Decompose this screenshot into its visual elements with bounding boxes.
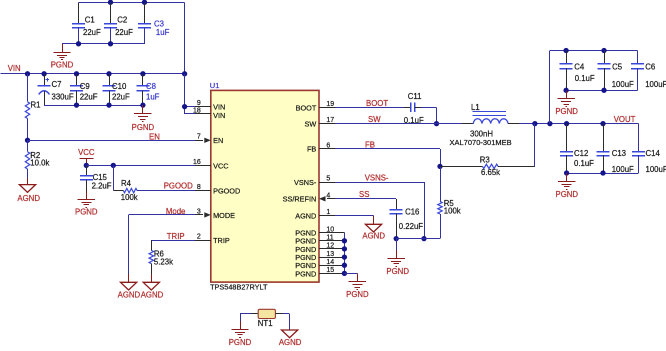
U1 pin 6 FB [307, 142, 335, 153]
svg-text:TRIP: TRIP [213, 236, 230, 245]
wire VSNS- net [335, 182, 425, 238]
net label SW [368, 115, 381, 124]
svg-text:VIN: VIN [213, 111, 225, 120]
wire top bank bottom rail [566, 90, 638, 92]
node top bank bottom junction at C4 [563, 88, 568, 93]
svg-text:C4: C4 [574, 62, 585, 71]
ground PGND under C15 [75, 191, 98, 217]
svg-text:VSNS-: VSNS- [294, 178, 317, 187]
node VOUT junction at R3 drop [532, 121, 537, 126]
svg-text:100uF: 100uF [612, 80, 634, 89]
wire C16/VSNS-/R5 bottom [396, 238, 440, 240]
resistor R2 [25, 140, 49, 184]
svg-text:1uF: 1uF [146, 93, 160, 102]
svg-text:100uF: 100uF [646, 165, 666, 174]
svg-text:22uF: 22uF [115, 28, 133, 37]
svg-text:C16: C16 [405, 207, 419, 216]
U1 pin 15 PGND [295, 267, 344, 278]
svg-text:Mode: Mode [166, 207, 186, 216]
svg-text:VIN: VIN [8, 64, 21, 73]
svg-text:VCC: VCC [78, 148, 95, 157]
node SW junction at C11 [434, 121, 439, 126]
svg-text:2: 2 [197, 234, 201, 241]
svg-text:14: 14 [326, 259, 334, 266]
wire C7-C8 bottom rail [44, 105, 143, 107]
U1 pin 12 PGND [295, 243, 344, 254]
U1 pin 7 EN [195, 134, 223, 146]
wire SW net [335, 123, 473, 125]
svg-text:22uF: 22uF [112, 92, 130, 101]
node VCC junction at R4 branch [111, 163, 116, 168]
node PGND bus junction pin 13 [342, 254, 347, 259]
svg-text:15: 15 [326, 267, 334, 274]
capacitor C1 [72, 2, 101, 44]
svg-text:SW: SW [305, 120, 317, 129]
wire EN net [28, 140, 195, 142]
node bottom rail junction at C9 [74, 102, 79, 107]
net label BOOT [366, 99, 388, 108]
svg-text:22uF: 22uF [80, 92, 98, 101]
svg-text:0.22uF: 0.22uF [399, 222, 424, 231]
net label VSNS- [365, 173, 389, 182]
capacitor C16 [390, 199, 424, 239]
svg-text:C11: C11 [408, 92, 422, 101]
net label PGOOD [164, 182, 193, 191]
node PGND bus junction pin 11 [342, 238, 347, 243]
svg-text:100uF: 100uF [612, 165, 634, 174]
svg-text:C9: C9 [80, 82, 90, 91]
svg-text:10: 10 [326, 226, 334, 233]
capacitor C13 [597, 124, 635, 174]
svg-text:EN: EN [213, 136, 223, 145]
ground AGND under R2 [17, 178, 40, 203]
net label Mode [166, 207, 186, 216]
wire VIN rail [1, 73, 185, 75]
svg-text:5.23k: 5.23k [154, 258, 173, 267]
capacitor C8 [136, 74, 159, 105]
svg-text:330uF: 330uF [52, 92, 74, 101]
svg-text:MODE: MODE [213, 211, 235, 220]
node top rail junction at C2 [108, 0, 113, 5]
node junction at U1 pin 9 [182, 104, 187, 109]
svg-text:13: 13 [326, 251, 334, 258]
svg-text:PGND: PGND [346, 290, 369, 299]
U1 pin 5 VSNS- [294, 176, 335, 187]
svg-text:PGOOD: PGOOD [164, 182, 193, 191]
node bottom rail junction at C1 [76, 41, 81, 46]
capacitor C4 [560, 51, 595, 91]
node VOUT junction at C13 [600, 121, 605, 126]
node VIN junction at C8 [140, 71, 145, 76]
svg-text:XAL7070-301MEB: XAL7070-301MEB [450, 138, 512, 147]
svg-text:17: 17 [326, 117, 334, 124]
svg-text:SW: SW [368, 115, 381, 124]
U1 pin 4 SS/REFIN [283, 192, 335, 203]
svg-text:6.65k: 6.65k [481, 168, 500, 177]
ground AGND at NT1 [279, 330, 302, 347]
net tie NT1 [258, 309, 276, 328]
ground PGND at U1 power pad [346, 273, 369, 299]
U1 pin 19 BOOT [296, 101, 335, 112]
wire NT1 right [275, 314, 289, 331]
svg-text:100k: 100k [121, 193, 138, 202]
resistor R6 [149, 240, 173, 274]
U1 pin 8 PGOOD [195, 184, 240, 196]
capacitor C12 [560, 124, 594, 173]
ground AGND at R6 [141, 274, 164, 299]
svg-text:C13: C13 [612, 149, 626, 158]
svg-text:19: 19 [326, 101, 334, 108]
wire PGND pin bus [344, 233, 346, 274]
svg-text:R1: R1 [31, 101, 41, 110]
node VIN junction at C10 [106, 71, 111, 76]
ground PGND under C8 [132, 102, 155, 132]
net label EN [149, 133, 160, 142]
ground PGND at top bank [555, 90, 578, 116]
svg-text:EN: EN [149, 133, 160, 142]
svg-text:AGND: AGND [362, 231, 385, 240]
svg-text:NT1: NT1 [258, 319, 273, 328]
U1 pin 14 PGND [295, 259, 344, 270]
U1 reference designator [210, 81, 220, 90]
ground PGND under C1-C3 bank [51, 44, 74, 70]
svg-text:PGND: PGND [75, 208, 98, 217]
capacitor C9 [70, 74, 98, 105]
node top rail junction at C3 [142, 0, 147, 5]
node C16 bottom junction [394, 236, 399, 241]
wire L1 to VOUT [508, 123, 638, 125]
svg-text:AGND: AGND [118, 290, 141, 299]
svg-text:C1: C1 [85, 16, 95, 25]
node EN junction at R1/R2 [25, 138, 30, 143]
svg-text:C2: C2 [117, 16, 127, 25]
svg-text:PGND: PGND [556, 190, 579, 199]
resistor R5 [438, 199, 461, 238]
wire R4 branch vertical [113, 165, 115, 190]
capacitor C11 [404, 92, 424, 125]
svg-text:C7: C7 [52, 80, 62, 89]
node VIN junction at VIN-pin rail [182, 71, 187, 76]
inductor L1 [450, 103, 512, 147]
U1 pin 10 PGND [295, 226, 344, 237]
net label SS [359, 190, 369, 199]
wire VIN rail to U1 VIN pins [185, 74, 195, 114]
svg-text:3: 3 [197, 208, 201, 215]
wire top rail C1-C3 to VIN-pin rail [79, 2, 185, 74]
node VIN junction at C9 [74, 71, 79, 76]
svg-text:TRIP: TRIP [167, 232, 185, 241]
node VIN junction at R1 [25, 71, 30, 76]
svg-text:11: 11 [326, 235, 333, 242]
svg-text:TPS548B27RYLT: TPS548B27RYLT [210, 283, 268, 292]
node VIN junction at C7 [41, 71, 46, 76]
ground AGND at U1 pin 1 [362, 216, 385, 241]
svg-text:C5: C5 [612, 62, 623, 71]
svg-text:5: 5 [326, 176, 330, 183]
power symbol VCC [78, 148, 95, 165]
node VOUT junction at top bank [547, 121, 552, 126]
capacitor C5 [598, 51, 635, 91]
ground PGND at bottom bank [556, 173, 579, 199]
capacitor C7 (polarized) [38, 74, 74, 105]
U1 part number label [210, 283, 268, 292]
wire TRIP net [151, 240, 195, 242]
svg-text:1: 1 [326, 209, 330, 216]
node PGND bus junction pin 15 [342, 271, 347, 276]
svg-text:PGND: PGND [555, 107, 578, 116]
resistor R3 [440, 124, 535, 177]
svg-text:0.1uF: 0.1uF [574, 159, 594, 168]
svg-text:PGND: PGND [386, 267, 409, 276]
wire FB net [335, 149, 441, 167]
svg-text:0.1uF: 0.1uF [575, 74, 595, 83]
node VOUT junction at C12 [564, 121, 569, 126]
svg-text:BOOT: BOOT [296, 103, 317, 112]
ground PGND under C16 [386, 239, 409, 276]
wire top bank rail [550, 51, 638, 124]
wire AGND pin net [335, 215, 374, 217]
svg-text:100k: 100k [444, 207, 461, 216]
svg-text:AGND: AGND [295, 211, 316, 220]
wire NT1 left [240, 314, 258, 322]
node VSNS- junction [421, 236, 426, 241]
U1 pin 11 PGND [295, 235, 344, 246]
svg-text:C8: C8 [146, 82, 156, 91]
resistor R4 [113, 179, 138, 202]
node bottom bank junction at C12 [564, 170, 569, 175]
svg-text:R3: R3 [480, 156, 490, 165]
capacitor C15 [80, 165, 112, 191]
ground AGND at MODE [118, 274, 141, 299]
svg-text:10.0k: 10.0k [30, 159, 49, 168]
U1 pin 13 PGND [295, 251, 344, 262]
U1 pin 16 VCC [193, 159, 229, 171]
svg-text:PGND: PGND [51, 61, 74, 70]
U1 pin 9 VIN [195, 100, 225, 112]
svg-text:1uF: 1uF [156, 28, 170, 37]
svg-text:VCC: VCC [213, 161, 228, 170]
svg-text:6: 6 [326, 142, 330, 149]
svg-text:FB: FB [307, 145, 316, 154]
wire FB vertical to R5 [440, 166, 442, 201]
capacitor C3 [138, 2, 170, 44]
U1 pin 1 AGND [295, 209, 335, 220]
capacitor C10 [103, 74, 131, 105]
svg-text:C12: C12 [574, 149, 588, 158]
net label FB [365, 140, 375, 149]
svg-text:L1: L1 [471, 103, 480, 112]
svg-text:U1: U1 [210, 81, 220, 90]
capacitor C14 [632, 124, 666, 174]
svg-text:PGND: PGND [132, 123, 155, 132]
capacitor C2 [104, 2, 133, 44]
node top rail junction at C5 [601, 48, 606, 53]
svg-text:C6: C6 [645, 62, 655, 71]
svg-text:7: 7 [197, 134, 201, 141]
svg-text:PGND: PGND [229, 338, 252, 346]
svg-text:C14: C14 [646, 149, 661, 158]
wire MODE net [129, 215, 195, 275]
node top bank bottom junction at C5 [601, 88, 606, 93]
svg-text:100uF: 100uF [645, 80, 666, 89]
wire PGND bus to ground [344, 273, 357, 275]
svg-text:AGND: AGND [17, 194, 40, 203]
node top rail junction at C4 [563, 48, 568, 53]
wire SS net [335, 198, 396, 200]
svg-text:AGND: AGND [279, 338, 302, 346]
svg-text:4: 4 [326, 192, 330, 199]
net label VOUT [614, 115, 636, 124]
wire PGOOD net [137, 190, 195, 192]
node bottom bank junction at C13 [600, 170, 605, 175]
net label TRIP [167, 232, 185, 241]
svg-text:C10: C10 [112, 82, 127, 91]
svg-text:8: 8 [197, 184, 201, 191]
node PGND bus junction pin 12 [342, 246, 347, 251]
node VCC junction at C15 [84, 163, 89, 168]
svg-text:PGND: PGND [295, 269, 316, 278]
svg-text:VOUT: VOUT [614, 115, 636, 124]
svg-text:22uF: 22uF [83, 28, 101, 37]
svg-text:BOOT: BOOT [366, 99, 388, 108]
U1 pin 18 VIN [193, 107, 225, 120]
svg-text:18: 18 [193, 107, 201, 114]
node PGND bus junction pin 14 [342, 263, 347, 268]
wire VCC net [86, 165, 195, 167]
svg-text:AGND: AGND [141, 290, 164, 299]
svg-text:16: 16 [193, 159, 201, 166]
svg-text:2.2uF: 2.2uF [92, 182, 112, 191]
U1 pin 2 TRIP [195, 234, 230, 246]
wire bottom bank bottom rail [567, 173, 639, 175]
wire BOOT net [335, 107, 404, 109]
ground PGND at NT1 [229, 321, 252, 347]
wire C11 to SW [421, 107, 437, 123]
net label VIN [8, 64, 21, 73]
svg-text:9: 9 [197, 100, 201, 107]
svg-text:FB: FB [365, 140, 375, 149]
U1 pin 3 MODE [195, 208, 235, 220]
svg-text:R4: R4 [121, 179, 132, 188]
node bottom rail junction at C2 [108, 41, 113, 46]
node FB junction at R3 [437, 164, 442, 169]
svg-text:SS/REFIN: SS/REFIN [283, 195, 317, 204]
capacitor C6 [631, 51, 666, 91]
svg-text:12: 12 [326, 243, 334, 250]
U1 pin 17 SW [305, 117, 335, 128]
svg-text:SS: SS [359, 190, 369, 199]
op-amp U1 TPS548B27RYLT body [211, 90, 319, 282]
svg-text:PGOOD: PGOOD [213, 187, 240, 196]
svg-text:VSNS-: VSNS- [365, 173, 389, 182]
wire C1-C3 bottom rail [62, 43, 145, 45]
node bottom rail junction at C10 [106, 102, 111, 107]
resistor R1 [25, 74, 40, 141]
